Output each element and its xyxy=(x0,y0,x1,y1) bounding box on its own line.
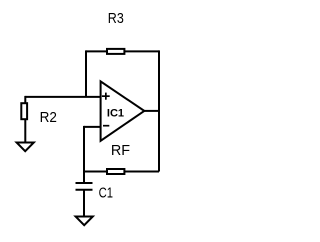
wire: right vertical (output to loops) xyxy=(158,50,160,171)
wire: C1 column vertical xyxy=(83,126,85,183)
resistor R2 xyxy=(21,103,27,119)
svg-text:R3: R3 xyxy=(108,10,124,27)
wire: C1 to ground stub xyxy=(83,190,85,217)
op-amp minus symbol xyxy=(103,125,109,127)
wire: top feedback loop horizontal xyxy=(86,50,159,52)
op-amp IC1 triangle xyxy=(101,81,145,140)
wire: op-amp output xyxy=(144,110,159,112)
wire: R2 top stub xyxy=(24,96,26,104)
capacitor C1 plates xyxy=(76,183,93,190)
svg-text:IC1: IC1 xyxy=(107,108,124,120)
wire: inverting input (-) horizontal xyxy=(84,126,101,128)
resistor RF xyxy=(107,169,124,174)
wire: non-inverting input (+) horizontal xyxy=(25,96,100,98)
svg-text:R2: R2 xyxy=(40,109,57,126)
wire: R2 bottom stub xyxy=(24,119,26,143)
svg-text:RF: RF xyxy=(111,142,130,159)
wire: top loop left vertical xyxy=(85,50,87,97)
resistor R3 xyxy=(107,49,124,54)
svg-text:C1: C1 xyxy=(99,185,113,202)
ground symbol under C1 xyxy=(76,217,93,226)
ground symbol under R2 xyxy=(17,143,34,152)
wire: bottom feedback loop horizontal xyxy=(84,171,159,173)
op-amp plus symbol xyxy=(102,93,110,100)
